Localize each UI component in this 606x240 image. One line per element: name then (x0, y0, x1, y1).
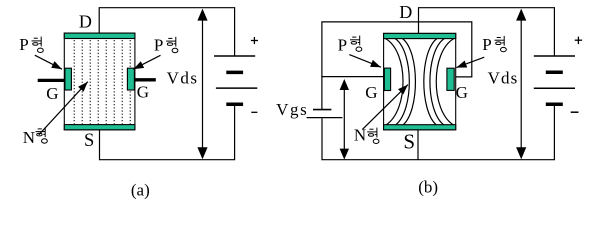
battery B1 short thick plate (226, 71, 243, 75)
wire: gate junction down to Vgs battery top plate (b) (321, 77, 323, 110)
gate P-region left (b) (384, 68, 390, 90)
battery B2 short thick plate (546, 70, 563, 74)
svg-text:D: D (79, 12, 92, 32)
pointer arrow from P label to left gate (b) (349, 55, 381, 68)
svg-text:G: G (46, 84, 58, 103)
svg-text:(a): (a) (131, 180, 150, 199)
label N-hyeong (b) (354, 126, 379, 145)
svg-text:N: N (354, 126, 366, 145)
drain electrode bar D (b) (384, 33, 456, 38)
svg-text:S: S (403, 129, 415, 153)
Vds measurement arrow, circuit (a) (197, 9, 207, 160)
svg-text:Vds: Vds (488, 68, 518, 87)
svg-text:S: S (84, 131, 94, 151)
depletion boundary curves left group (b) (386, 39, 416, 125)
label P-hyeong right (b) (482, 35, 506, 54)
wire: battery negative terminal along bottom to source and Vgs branch, circuit (b) (322, 106, 554, 160)
battery B1 short thick plate (-) bottom (226, 103, 243, 107)
wire: gate bias loop (left gate, top run, right gate) (b) (322, 22, 472, 77)
Vgs battery short plate (-) top (313, 109, 331, 111)
battery B2 long plate (+) top (534, 55, 575, 57)
source electrode bar S (b) (384, 125, 456, 130)
battery B1 long plate (216, 87, 257, 89)
wire: drain D to battery positive terminal, circuit (a) (99, 8, 234, 56)
plus sign of battery B1 (251, 37, 258, 44)
minus sign of battery B2 (571, 111, 579, 113)
JFET body outline (a) (64, 33, 135, 130)
N-channel dotted lines (a) (74, 40, 130, 125)
label N-hyeong (a) (23, 127, 48, 147)
svg-text:Vgs: Vgs (276, 100, 307, 119)
source electrode bar S (a) (64, 125, 135, 130)
pointer arrow from P label to right gate (b) (456, 57, 484, 67)
svg-text:D: D (399, 2, 412, 22)
svg-text:G: G (456, 83, 468, 102)
depletion boundary curves right group (b) (424, 39, 454, 125)
gate P-region right (b) (447, 68, 454, 90)
gate P-region left (a) (65, 68, 72, 90)
JFET body outline (b) (384, 33, 456, 129)
plus sign of battery B2 (575, 37, 582, 45)
pointer arrow from P label to right gate (a) (133, 55, 160, 69)
svg-text:N: N (23, 128, 35, 147)
Vgs battery long plate (+) bottom (307, 117, 343, 119)
svg-text:G: G (365, 83, 377, 102)
gate lead right thick (a) (134, 78, 156, 81)
wire: source S down to bottom wire (b) (417, 130, 419, 160)
svg-text:P: P (338, 36, 347, 55)
gate lead left thick (a) (38, 79, 66, 82)
label P-hyeong right (a) (154, 35, 178, 54)
label P-hyeong left (a) (19, 35, 43, 54)
svg-text:P: P (482, 35, 491, 54)
Vgs measurement arrow (b) (340, 79, 349, 160)
svg-text:P: P (154, 35, 163, 54)
gate P-region right (a) (127, 68, 134, 90)
battery B2 long plate (534, 87, 575, 89)
svg-text:(b): (b) (418, 177, 438, 196)
wire: battery negative terminal to source S, circuit (a) (100, 106, 235, 160)
svg-text:G: G (137, 83, 149, 102)
wire: drain D to battery positive terminal, circuit (b) (419, 8, 555, 56)
battery B2 short thick plate (-) bottom (546, 102, 563, 106)
pointer arrow from P label to left gate (a) (35, 55, 62, 69)
label P-hyeong left (b) (338, 36, 362, 55)
pointer arrow from N label into channel (a) (39, 82, 88, 135)
minus sign of battery B1 (251, 111, 257, 113)
pointer arrow from N label into channel (b) (363, 85, 409, 130)
svg-text:Vds: Vds (167, 68, 197, 87)
svg-text:P: P (19, 35, 28, 54)
battery B1 long plate (+) top (214, 55, 255, 57)
drain electrode bar D (a) (64, 33, 135, 38)
Vds measurement arrow (b) (516, 9, 526, 160)
